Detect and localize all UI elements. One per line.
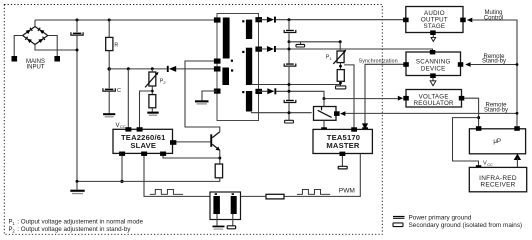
svg-text:STAGE: STAGE (424, 23, 446, 30)
svg-text:μP: μP (493, 138, 501, 145)
diode D aux (pointing left) (167, 66, 176, 72)
diode DA output 1 (267, 17, 276, 23)
pin audio bottom (430, 30, 436, 35)
diode D1 (bridge top-left) (26, 28, 33, 34)
node primary tap 1 (214, 59, 221, 64)
svg-text:SLAVE: SLAVE (130, 141, 156, 150)
capacitor C3 (output 3) (284, 100, 296, 103)
transistor Q1 (210, 132, 220, 151)
wire remote stand-by 1 (471, 64, 517, 66)
pin switch right (334, 111, 340, 116)
transformer secondary winding B (246, 48, 252, 85)
svg-text:: Output voltage adjustement i: : Output voltage adjustement in stand-by (17, 226, 131, 233)
resistor below P2 (149, 95, 156, 108)
arrow into VR (398, 96, 403, 101)
wire P1 bottom to resistor (340, 63, 342, 70)
pin TEA2260 top 1 (125, 127, 131, 131)
svg-text:R: R (114, 42, 118, 48)
pin IR Vcc (476, 165, 482, 170)
svg-text:Synchronization: Synchronization (359, 58, 398, 64)
node filter cap top (76, 19, 79, 22)
box SCANNING DEVICE (406, 52, 461, 76)
pin TEA5170 top (wiper) (351, 127, 357, 131)
ground bracket adjust rail (secondary) (296, 42, 305, 47)
diode DB output 2 (267, 46, 276, 52)
svg-text:Power primary ground: Power primary ground (409, 215, 472, 222)
wire bridge top to rail (34, 20, 36, 27)
node adjust rail (288, 40, 291, 43)
arrow remote into scanning (465, 62, 470, 67)
node secondary tap C (255, 89, 262, 94)
pin scanning left (403, 62, 409, 67)
wire mains right lead (48, 36, 57, 57)
wire IR to uP (516, 158, 518, 168)
ground P1 (secondary) (336, 86, 346, 89)
ground arrow audio (secondary) (431, 37, 436, 41)
wire bridge bottom rail (35, 45, 77, 51)
wire filter cap leads (76, 20, 78, 32)
node P2 top (151, 67, 154, 70)
diode D3 (bridge bottom-left) (25, 37, 32, 43)
potentiometer P2 (149, 72, 156, 86)
wire TEA2260 pin3 to emitter (163, 156, 220, 158)
svg-text:DEVICE: DEVICE (421, 66, 446, 73)
pin VR right (459, 96, 465, 101)
svg-text:SCANNING: SCANNING (416, 59, 451, 66)
node P1 ground (339, 82, 342, 85)
wire output 2 (259, 49, 433, 52)
pin TEA2260 top 2 (137, 127, 143, 131)
IC TEA2260/61 SLAVE (113, 129, 173, 153)
ground C (primary) (103, 113, 115, 117)
T2 winding right (231, 196, 237, 214)
wire PWM to drive transformer (241, 195, 267, 197)
node output 4 junction (288, 111, 291, 114)
pin TEA5170 bottom (340, 152, 346, 156)
wire ground stub (76, 181, 78, 189)
box VOLTAGE REGULATOR (406, 90, 462, 108)
P1 wiper arrow (333, 51, 345, 64)
wire cap chain (288, 20, 290, 121)
node remote 1 (516, 63, 519, 66)
wire switch top feed (323, 99, 325, 107)
wire top rail (35, 19, 217, 21)
capacitor filter (mains) (71, 32, 83, 35)
arrow sync into TEA5170 (362, 123, 368, 129)
capacitor C (103, 88, 115, 91)
node Vcc branch (477, 116, 480, 119)
node R top (108, 19, 111, 22)
node output 3 junction (288, 90, 291, 93)
wire collector loop to transformer tap (185, 61, 220, 132)
wire VR feed (324, 98, 398, 100)
pin TEA2260 bottom 3 (160, 152, 166, 156)
ground T2 right (secondary) (227, 226, 235, 229)
wire mains left lead (14, 36, 22, 57)
capacitor C2 (output 2) (284, 63, 296, 66)
wire output 3 (259, 91, 325, 98)
wire adjust rail to P1 (289, 41, 340, 43)
transformer secondary winding A (246, 20, 252, 39)
wire R leads (108, 20, 110, 69)
pin TEA2260 bottom 1 (119, 152, 125, 156)
wire muting control (472, 20, 517, 126)
wire pin2 to drive transformer (144, 156, 210, 197)
node primary top (214, 17, 221, 22)
drive transformer T2 frame (210, 192, 241, 220)
wire P1 top lead (339, 42, 341, 51)
pin VR left (403, 96, 409, 101)
T2 polarity dots (215, 193, 217, 195)
svg-text:: Output voltage adjustement i: : Output voltage adjustement in normal m… (17, 218, 143, 225)
wire Vcc drop to TEA2260 (127, 69, 129, 129)
pin audio right (460, 18, 466, 23)
wire remote stand-by (switch to uP) (345, 112, 517, 114)
node output 2 junction (288, 48, 291, 51)
wire resistor to ground (151, 108, 153, 112)
resistor below P1 (337, 70, 344, 82)
dotted mains-isolation border (4, 5, 382, 235)
wire pin1 down (121, 156, 123, 182)
ground arrow scanning (secondary) (430, 81, 436, 86)
wire transformer ground elbow (202, 91, 217, 100)
waveform glyph (slave drive) (150, 189, 183, 194)
pin uP top left (476, 126, 482, 131)
arrow muting into audio (467, 18, 472, 23)
svg-text:C: C (117, 88, 121, 94)
svg-text:PWM: PWM (339, 188, 355, 195)
resistor PWM series (266, 194, 284, 199)
legend secondary ground (393, 223, 403, 227)
wire output 4 (remote/Vcc line from winding C) (251, 112, 312, 114)
wire base drive (176, 141, 210, 143)
node P1 bottom (339, 65, 342, 68)
wire scanning ground stub (432, 78, 434, 81)
wire audio ground stub (432, 35, 434, 37)
ground TEA5170 (secondary) (338, 166, 347, 169)
node pin1 ground rail (120, 180, 123, 183)
resistor R (106, 37, 113, 50)
pin audio left (403, 18, 409, 23)
wire P2 tap to TEA2260 pin (140, 91, 153, 129)
waveform glyph PWM (297, 189, 330, 194)
wire synchronization (365, 64, 406, 124)
switch remote box (314, 107, 337, 121)
node R bottom junction (108, 67, 111, 70)
box INFRA-RED RECEIVER (469, 167, 526, 191)
wire TEA5170 PWM out (284, 154, 360, 197)
svg-text:MASTER: MASTER (326, 141, 360, 150)
polarity dot A (242, 20, 244, 22)
ground T2 left (secondary) (213, 226, 225, 230)
wire resistor to return rail (340, 81, 342, 86)
node remote 2 (516, 112, 519, 115)
wire Vcc supply rail (109, 68, 217, 70)
wire primary ground rail (77, 178, 220, 182)
pin switch bottom / TEA5170 top (323, 120, 325, 129)
box AUDIO OUTPUT STAGE (406, 7, 463, 33)
ground main (primary) (70, 190, 84, 195)
node P1 top (339, 40, 342, 43)
bridge rectifier (23, 27, 48, 45)
pin scanning bottom (430, 73, 436, 78)
ground transformer (primary) (195, 100, 209, 104)
arrow into switch (340, 111, 345, 116)
node secondary tap B (255, 47, 262, 52)
wire TEA5170 bottom stub (341, 156, 343, 167)
mains input terminal left (12, 56, 18, 62)
node primary tap 2 (214, 66, 221, 71)
node secondary top (255, 17, 262, 22)
transformer primary winding 2 (222, 68, 229, 86)
svg-text:INPUT: INPUT (27, 65, 45, 71)
wire C leads (108, 69, 110, 113)
IC TEA5170 MASTER (313, 129, 372, 153)
pin scanning top (430, 50, 436, 54)
arrow IR to uP (514, 154, 521, 160)
wire emitter (219, 150, 221, 164)
polarity dot primary 1 (231, 60, 233, 62)
mains input terminal right (54, 56, 60, 62)
wire P2 bottom to series resistor (151, 86, 153, 95)
legend power primary ground (393, 216, 405, 219)
diode D4 (bridge bottom-right) (38, 37, 45, 43)
svg-text:CC: CC (487, 163, 493, 167)
transformer T1 frame (217, 14, 259, 121)
node Vcc drop (127, 67, 130, 70)
node winding B return junction (288, 83, 291, 86)
capacitor C1 (output 1) (284, 30, 296, 33)
node emitter junction (218, 157, 221, 160)
resistor emitter (215, 164, 222, 178)
pin scanning right (458, 62, 464, 67)
svg-text:Secondary ground (isolated fro: Secondary ground (isolated from mains) (409, 222, 523, 229)
wire output 1 (259, 19, 406, 21)
ground P2 (primary) (147, 112, 158, 116)
pin TEA2260 bottom 2 (141, 152, 147, 156)
svg-text:Control: Control (484, 15, 503, 21)
pin uP top right (514, 126, 520, 131)
node switch top feed (323, 97, 326, 100)
wire T2 right winding to ground (232, 214, 234, 226)
svg-text:V: V (116, 123, 120, 129)
transformer secondary winding C (246, 91, 252, 112)
ground cap chain (secondary) (285, 120, 294, 123)
pin TEA2260 right (170, 140, 176, 145)
svg-text:CC: CC (120, 124, 126, 129)
T2 winding left (213, 196, 220, 214)
node ground rail left (76, 180, 79, 183)
transformer primary winding 1 (223, 18, 230, 59)
wire VR to uP (464, 98, 478, 126)
polarity dot B (242, 51, 244, 53)
polarity dot C (242, 91, 244, 93)
wire P2 top lead (151, 69, 153, 72)
wire winding B return (251, 84, 341, 86)
wire T2 left winding to ground (216, 214, 218, 226)
box uP (469, 129, 525, 154)
wire Vcc branch to IR receiver (453, 118, 479, 168)
node P2 tap (151, 90, 154, 93)
diode DC output 3 (267, 88, 276, 94)
svg-text:Stand-by: Stand-by (484, 107, 508, 113)
svg-text:Stand-by: Stand-by (482, 59, 506, 65)
node primary bottom tap (214, 89, 221, 94)
svg-text:REGULATOR: REGULATOR (414, 100, 454, 107)
wire P1 wiper to TEA5170 (344, 65, 354, 129)
diode D2 (bridge top-right) (38, 28, 45, 34)
potentiometer P1 (337, 51, 344, 63)
polarity dot primary 2 (231, 69, 233, 71)
node bridge rail to cap column (76, 49, 79, 52)
svg-text:RECEIVER: RECEIVER (480, 181, 515, 188)
node cap chain top (288, 18, 291, 21)
switch lever (318, 110, 332, 117)
P2 wiper arrow (145, 74, 157, 88)
